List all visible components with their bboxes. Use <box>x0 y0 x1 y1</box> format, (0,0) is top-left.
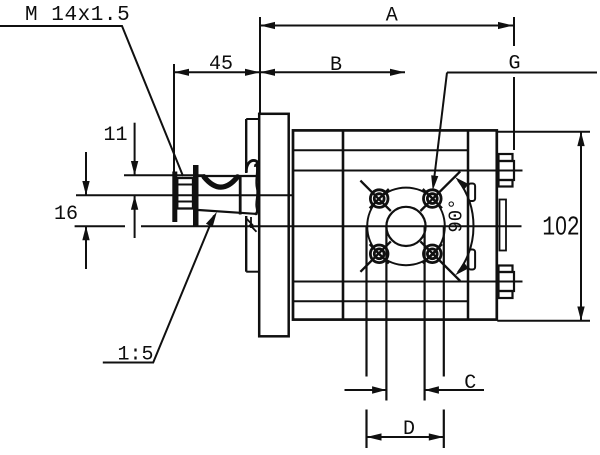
shaft end face <box>239 175 242 215</box>
dim 16 arrow up <box>82 226 89 240</box>
dim 16 line upper <box>85 152 87 195</box>
svg-text:11: 11 <box>103 124 127 147</box>
break-out hatch line 1 <box>246 219 253 226</box>
dim 45 line <box>174 71 260 73</box>
bolt hole bottom-right radial line <box>420 241 460 281</box>
angle 90 arc arrow top <box>455 177 468 190</box>
leader G shoulder <box>447 72 597 74</box>
dim 102 line <box>580 132 582 321</box>
leader 1:5 arrowhead <box>206 212 217 227</box>
dim D extension right upper <box>443 226 445 376</box>
lower bolt head top band <box>499 266 513 273</box>
leader 1:5 <box>103 216 214 363</box>
upper bolt head top band <box>499 154 513 161</box>
joint tab lower <box>468 250 475 270</box>
rear boss <box>500 200 507 251</box>
svg-text:A: A <box>386 4 398 27</box>
dim D extension left upper <box>365 226 367 376</box>
lower bolt head mid band <box>499 272 515 291</box>
bolt hole top-right radial line <box>420 171 460 211</box>
joint tab upper <box>468 184 475 202</box>
bolt hole top-right inner <box>427 194 437 204</box>
front boss face lower <box>245 216 247 272</box>
break-out hatch line 2 <box>250 225 257 232</box>
angle 90 arc arrow bottom <box>455 263 468 276</box>
shaft washer disc <box>193 165 199 226</box>
dim 102 arrow down <box>577 307 584 321</box>
dim D extension right lower <box>443 410 445 449</box>
bolt hole bottom-left outer <box>370 245 388 263</box>
front boss top edge <box>246 118 259 120</box>
bolt hole bottom-left radial line <box>360 241 390 271</box>
angle 90 arc <box>458 180 474 272</box>
lower bolt axis line <box>293 281 523 283</box>
dim 11 line upper <box>134 123 136 176</box>
dim 102 extension top <box>497 131 590 133</box>
front boss face upper <box>245 119 247 173</box>
dim A extension left <box>259 17 261 114</box>
svg-text:M 14x1.5: M 14x1.5 <box>25 4 130 27</box>
dim C line left <box>345 389 387 391</box>
shaft nut facet upper <box>177 184 193 186</box>
bolt hole top-left radial line <box>360 181 390 211</box>
svg-text:90°: 90° <box>446 198 468 232</box>
dim C arrow right <box>372 386 386 393</box>
break-out curl top <box>246 160 257 172</box>
svg-text:C: C <box>464 372 476 395</box>
shaft centerline <box>76 194 292 196</box>
shaft top line <box>199 175 259 177</box>
upper bolt head mid band <box>499 161 515 180</box>
svg-text:102: 102 <box>542 211 580 244</box>
dim C extension right <box>424 226 426 400</box>
bolt hole bottom-left inner <box>374 249 384 259</box>
svg-text:D: D <box>403 418 415 441</box>
dim 11 line lower <box>134 196 136 239</box>
upper bolt axis line <box>293 170 523 172</box>
body line y150 <box>293 149 468 151</box>
shaft nut front face bar <box>172 172 177 223</box>
woodruff key crescent <box>204 177 238 187</box>
leader M 14x1.5 <box>0 26 183 176</box>
bolt hole top-left cross line <box>370 189 389 208</box>
dim 11 arrow up <box>131 196 138 210</box>
shaft nut body <box>177 178 193 209</box>
body line y301 <box>293 300 468 302</box>
body joint line rear cover <box>467 130 470 319</box>
bolt hole top-right cross line <box>423 189 442 208</box>
dim 102 arrow up <box>577 132 584 146</box>
upper bolt head bottom band <box>499 180 513 187</box>
lower bolt head bottom band <box>499 291 513 298</box>
dim C line right <box>425 389 484 391</box>
bolt hole bottom-right cross line <box>423 244 442 263</box>
leader G slant <box>434 73 447 184</box>
main centerline right <box>141 225 522 227</box>
port pilot circle <box>367 188 445 266</box>
bolt hole bottom-left cross line <box>370 244 389 263</box>
dim C arrow left <box>425 386 439 393</box>
dim 11 extension top <box>124 174 205 176</box>
main centerline left <box>75 225 125 227</box>
svg-text:16: 16 <box>54 203 78 226</box>
bolt hole bottom-right outer <box>424 245 442 263</box>
dim D line <box>367 436 444 438</box>
bolt hole top-right outer <box>424 190 442 208</box>
dim A line <box>260 25 513 27</box>
dim A extension right upper <box>513 17 515 46</box>
dim 102 extension bottom <box>497 320 590 322</box>
bolt hole top-left outer <box>370 190 388 208</box>
bolt hole bottom-right inner <box>427 249 437 259</box>
dim 16 arrow down <box>82 181 89 195</box>
mounting flange plate <box>259 114 289 336</box>
dim B line <box>260 71 405 73</box>
dim C extension left <box>385 226 387 400</box>
leader G arrowhead <box>431 175 438 190</box>
dim D extension left lower <box>365 410 367 449</box>
dim A extension right lower <box>513 77 515 150</box>
dim 11 arrow down <box>131 161 138 175</box>
port bore circle <box>386 207 425 246</box>
shaft nut facet lower <box>177 201 193 203</box>
front boss bottom edge <box>246 271 259 273</box>
svg-text:45: 45 <box>209 53 233 76</box>
svg-text:B: B <box>330 54 342 77</box>
pump body outline <box>293 130 497 319</box>
bolt hole top-left inner <box>374 194 384 204</box>
dim 45 extension left <box>173 64 175 207</box>
break-out wavy edge <box>255 163 258 215</box>
shaft taper bottom line <box>199 210 258 214</box>
dim 16 line lower <box>85 226 87 269</box>
break-out seal edge <box>250 217 252 228</box>
body section line <box>342 130 345 319</box>
